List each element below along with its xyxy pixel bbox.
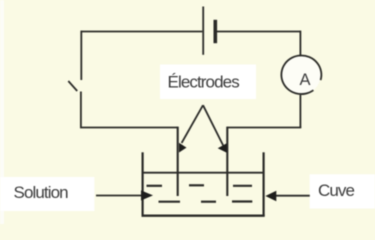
svg-text:Cuve: Cuve [318,181,355,200]
wire: top-left horizontal (battery to left corner) [81,31,202,33]
switch K1 blade (open) [68,81,77,91]
svg-text:Solution: Solution [14,183,69,202]
cuve bottom [142,214,265,216]
wire: bottom-left horizontal to left electrode [80,127,178,129]
arrow: Solution to cuve [96,195,142,197]
arrow leg: label apex to right electrode [203,105,223,145]
wire: left vertical from top corner to switch [80,31,82,80]
solution dashes row 2 [159,200,253,202]
wire: top-right horizontal (battery to ammeter corner) [217,31,301,33]
cuve right wall [263,152,265,216]
solution dashes row 1 [147,184,253,187]
wire: right vertical into ammeter top [299,31,301,57]
ammeter U1 body (white face) [281,56,321,94]
arrow: Cuve to cuve wall [276,195,310,197]
svg-text:Électrodes: Électrodes [168,73,240,92]
wire: ammeter bottom vertical [299,95,301,128]
wire: switch lower contact vertical [80,92,82,128]
label box: Électrodes [160,65,256,100]
label box: Cuve [310,174,375,208]
svg-text:A: A [299,71,310,89]
electrode E2 (right, into cuve) [226,127,228,196]
cuve left wall [142,152,144,216]
wire: right horizontal to right electrode [227,127,301,129]
electrode E1 (left, into cuve) [177,127,179,196]
label box: Solution [0,177,94,211]
battery B1 short thick plate (-) [214,20,218,43]
arrow leg: label apex to left electrode [182,105,203,143]
liquid surface line [143,172,264,174]
arrowhead: Solution arrow [141,190,153,200]
arrowhead at left electrode [179,143,187,153]
battery B1 long plate (+) [202,7,204,55]
arrowhead at right electrode [218,143,227,152]
left white edge strip [0,0,4,224]
ammeter U1 circle outline (hand-drawn, gap lower-right) [281,55,321,94]
arrowhead: Cuve arrow [265,191,276,201]
